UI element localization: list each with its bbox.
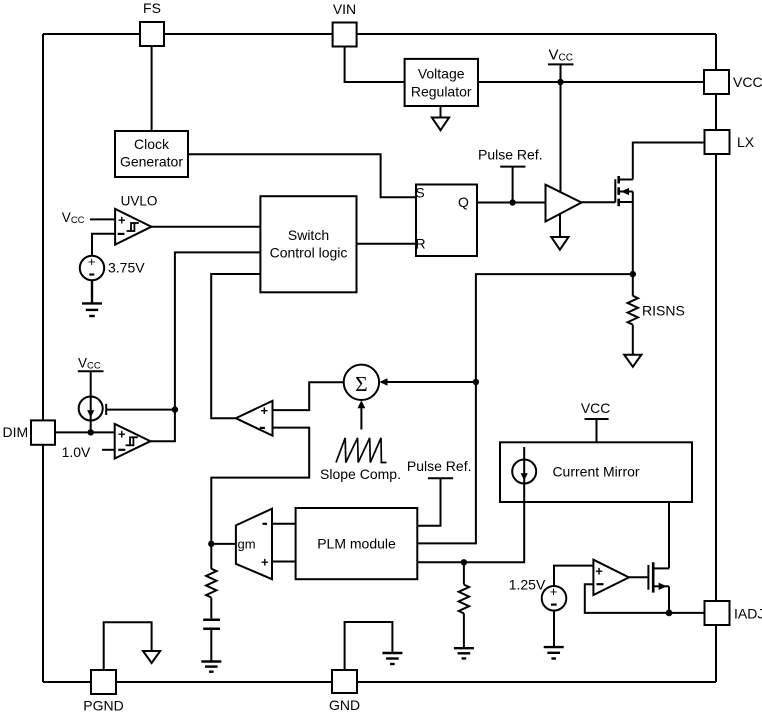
block Clock Generator — [115, 131, 188, 177]
resistor RISNS — [632, 274, 634, 296]
svg-text:1.0V: 1.0V — [62, 444, 91, 460]
ground: PGND internal triangle — [143, 651, 160, 663]
capacitor compensation — [203, 620, 220, 629]
wire: gm + input from PLM — [272, 561, 296, 563]
wire: GND internal ground — [345, 622, 393, 670]
svg-text:S: S — [415, 185, 424, 201]
wire: gm - input from PLM — [272, 523, 296, 525]
node: IADJ node — [666, 610, 673, 617]
transistor Q2 — [647, 565, 649, 590]
block Switch Control logic — [260, 196, 356, 292]
svg-text:+: + — [118, 213, 126, 228]
svg-text:Q: Q — [458, 194, 469, 210]
amplifier gm — [236, 509, 272, 580]
svg-text:VCC: VCC — [549, 47, 573, 64]
wire: Q2 source to IADJ node — [668, 586, 670, 613]
wire: gm output — [211, 543, 236, 545]
node: gm output — [208, 541, 214, 547]
svg-text:Slope Comp.: Slope Comp. — [320, 466, 401, 482]
svg-text:Regulator: Regulator — [411, 84, 472, 100]
block Current Mirror — [500, 442, 692, 502]
svg-text:Control logic: Control logic — [270, 245, 348, 261]
svg-text:FS: FS — [143, 0, 161, 16]
svg-text:+: + — [261, 403, 269, 418]
pin FS — [140, 22, 164, 46]
summer sigma — [344, 365, 379, 400]
wire: Switch Control logic to latch R input — [357, 243, 417, 245]
node: sigma tap — [473, 379, 479, 385]
wire: DIM pin to comparator + input — [55, 431, 115, 433]
svg-text:1.25V: 1.25V — [509, 577, 546, 593]
svg-text:IADJ: IADJ — [734, 606, 762, 622]
svg-text:VCC: VCC — [78, 356, 101, 372]
svg-text:LX: LX — [737, 134, 755, 150]
wire: 3.75V to UVLO - input — [92, 234, 115, 256]
latch SR — [416, 185, 477, 257]
pin GND — [332, 670, 357, 693]
hysteresis symbol (UVLO) — [127, 223, 139, 231]
svg-text:3.75V: 3.75V — [108, 260, 145, 276]
buffer gate driver — [546, 185, 582, 222]
wire: IC boundary top — [43, 33, 716, 35]
ground: GND internal earth — [382, 653, 402, 664]
svg-text:+: + — [550, 584, 558, 599]
svg-text:PLM module: PLM module — [317, 536, 396, 552]
source: DIM pull-up current source — [90, 371, 92, 432]
wire: sense node to PLM module — [417, 274, 633, 543]
resistor compensation — [210, 544, 212, 569]
wire: PLM module to current mirror — [417, 483, 524, 562]
svg-text:UVLO: UVLO — [121, 194, 158, 209]
wire and arrow: sense node into summer — [387, 381, 476, 383]
source 3.75V — [80, 256, 104, 280]
pin PGND — [91, 670, 116, 694]
svg-text:VCC: VCC — [733, 74, 762, 90]
pin LX — [705, 130, 730, 154]
op-amp IADJ — [593, 560, 629, 595]
svg-text:GND: GND — [329, 697, 360, 713]
wire: feedback loop to op-amp - input — [585, 584, 705, 613]
wire: FS pin to Clock Generator — [151, 46, 153, 131]
ground below PLM resistor — [454, 648, 474, 658]
wire: current mirror to Q2 drain — [668, 502, 670, 568]
svg-text:VCC: VCC — [581, 400, 611, 416]
svg-text:PGND: PGND — [83, 698, 123, 714]
ground below capacitor — [201, 662, 221, 672]
node: pulse ref tap — [509, 199, 515, 205]
svg-text:Voltage: Voltage — [418, 66, 465, 82]
svg-text:+: + — [261, 555, 269, 570]
label 1.0V and reference stub — [102, 449, 115, 451]
wire: PGND internal ground — [104, 622, 152, 670]
pin DIM — [31, 420, 55, 444]
wire: Vcc to gate driver — [560, 82, 562, 192]
wire: op-amp output to Q2 gate — [629, 576, 649, 578]
arrow: slope comp into summer — [360, 407, 362, 430]
node: DIM wire junction — [88, 429, 94, 435]
svg-text:Generator: Generator — [120, 154, 183, 170]
ground below RISNS — [624, 355, 641, 367]
svg-text:VIN: VIN — [333, 1, 356, 17]
svg-text:DIM: DIM — [3, 424, 29, 440]
svg-text:+: + — [595, 564, 603, 579]
svg-text:VCC: VCC — [62, 210, 85, 226]
transistor Q1 — [614, 179, 616, 202]
pin IADJ — [705, 601, 730, 625]
wire: 1.25V to op-amp + input — [554, 566, 593, 587]
wire: IC boundary bottom — [43, 681, 716, 683]
wire: Vcc to UVLO + input — [90, 218, 115, 220]
wire: driver output to Q1 gate — [582, 201, 616, 203]
pulse ref 2 — [417, 478, 440, 525]
wire: dim node to Switch Control logic input 2 — [175, 252, 261, 409]
node: sense node — [630, 271, 636, 277]
wire: VIN pin to Voltage Regulator — [345, 46, 405, 82]
slope comp waveform — [336, 438, 387, 463]
node: Vcc junction — [557, 79, 563, 85]
comparator UVLO — [115, 209, 151, 245]
hysteresis symbol (DIM comparator) — [126, 437, 138, 445]
wire: Q1 drain to LX pin — [633, 143, 705, 180]
source: mirror current source — [523, 447, 525, 484]
wire: Voltage Regulator output to VCC pin — [478, 81, 704, 83]
ground below 3.75V — [82, 280, 102, 316]
source 1.25V — [542, 586, 567, 611]
svg-text:Clock: Clock — [134, 136, 170, 152]
block PLM module — [296, 508, 418, 579]
wire: PWM comparator output to Switch Control logic input 3 — [211, 274, 260, 418]
ground below Voltage Regulator — [440, 106, 442, 118]
block Voltage Regulator — [405, 59, 478, 106]
wire: IC boundary left — [42, 34, 44, 682]
svg-text:gm: gm — [237, 537, 255, 552]
node: PLM bottom — [461, 559, 467, 565]
svg-text:Σ: Σ — [355, 372, 368, 396]
wire: latch Q to gate driver — [477, 202, 546, 204]
wire: Q1 source to sense node — [632, 192, 634, 275]
svg-text:Switch: Switch — [288, 227, 329, 243]
wire: DIM comparator output to node — [150, 410, 175, 442]
pin VIN — [333, 23, 357, 47]
pin VCC — [704, 70, 729, 94]
wire: PWM comparator - input loop to gm output — [211, 428, 309, 544]
comparator PWM (left pointing) — [236, 401, 273, 436]
svg-text:RISNS: RISNS — [642, 303, 685, 319]
node: DIM comparator output node — [172, 406, 178, 412]
pulse ref 1 — [500, 166, 525, 168]
ground below 1.25V — [544, 647, 564, 658]
svg-text:Current Mirror: Current Mirror — [552, 464, 639, 480]
wire: Clock Generator to latch S input — [188, 154, 416, 197]
wire: IC boundary right — [715, 34, 717, 682]
ground below gate driver — [559, 214, 561, 237]
svg-text:+: + — [88, 254, 96, 269]
svg-text:+: + — [118, 427, 126, 442]
wire: summer to PWM comparator + input — [273, 382, 344, 410]
power Vcc symbol (top) — [548, 63, 574, 65]
comparator DIM — [115, 424, 151, 459]
svg-text:Pulse Ref.: Pulse Ref. — [407, 458, 472, 474]
wire: current source to comparator node — [106, 409, 175, 411]
wire: UVLO output to Switch Control logic — [151, 226, 260, 228]
resistor below PLM node — [463, 562, 465, 584]
svg-text:Pulse Ref.: Pulse Ref. — [478, 147, 543, 163]
svg-text:R: R — [415, 236, 425, 252]
